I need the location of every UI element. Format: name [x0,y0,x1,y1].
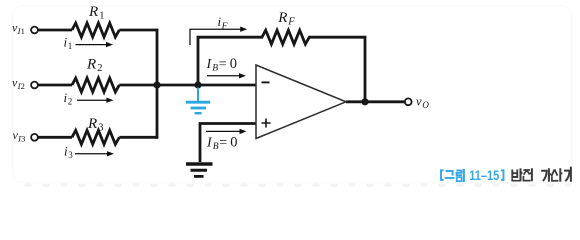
label vI2 [12,76,25,92]
caption figure tag [그림 11-15] [441,169,504,182]
wire R2 to op-amp inverting input [119,84,256,87]
svg-text:0: 0 [230,56,237,72]
resistor R1 [72,23,119,37]
node B : inverting-input junction [194,81,201,88]
wire RF to output node [308,37,365,102]
wire input 2 terminal to R2 [38,84,72,87]
bottom halftone dot row [24,183,572,187]
svg-text:R: R [277,10,287,26]
svg-text:F: F [287,16,295,27]
wire summing bus vertical [156,29,159,139]
current arrow IB=0 lower [206,129,247,134]
label vI1 [12,21,25,37]
hangul 반 [512,170,517,179]
op-amp minus pin label [262,81,270,83]
wire op-amp noninverting input [200,124,256,163]
svg-text:3: 3 [98,122,103,133]
svg-text:11–15: 11–15 [469,168,499,183]
terminal vI3 [31,134,38,141]
resistor R2 [72,78,119,92]
resistor RF [262,30,309,44]
svg-text:2: 2 [68,97,73,107]
hangul 전 [523,170,530,175]
hangul 가 [541,171,547,181]
current arrow i3 [75,151,114,156]
svg-text:2: 2 [21,81,25,91]
ground (virtual, cyan) at node B [186,88,210,114]
wire op-amp output [346,100,404,103]
svg-text:B: B [213,142,219,152]
caption bracket [ [441,170,444,180]
terminal vI2 [31,82,38,89]
svg-text:O: O [422,100,429,110]
wire node B up to feedback line [198,37,263,85]
node A : bus / row-2 junction [153,81,160,88]
op-amp U1 [256,65,346,139]
svg-text:2: 2 [97,63,102,74]
svg-text:B: B [212,63,218,73]
label i2 [64,90,73,107]
wire R3 to bus corner [119,136,158,139]
label vI3 [13,128,26,144]
svg-text:1: 1 [99,11,104,22]
svg-text:3: 3 [68,150,73,160]
wire input 1 terminal to R1 [38,29,72,32]
label IB=0 lower [206,134,238,151]
caption title 반전 가산기 [512,167,571,182]
current arrow i2 [77,98,113,103]
svg-text:=: = [219,57,227,72]
svg-text:3: 3 [21,134,25,144]
hangul 기 [564,171,570,182]
ground (black) at noninverting input [186,164,213,176]
label iF [218,14,228,32]
svg-text:=: = [219,135,227,150]
node output junction [361,98,368,105]
label RF [277,10,295,28]
svg-text:0: 0 [230,134,237,150]
current arrow IB=0 upper [207,73,246,78]
svg-text:v: v [416,95,422,109]
caption bracket ] [501,170,504,180]
svg-text:1: 1 [68,41,73,51]
label R1 [88,4,105,22]
caption hangul 림 [456,170,462,175]
label i3 [64,144,73,161]
label R2 [86,57,103,75]
svg-text:1: 1 [21,26,25,36]
terminal vO [405,98,412,105]
wire R1 to bus corner [119,29,158,32]
resistor R3 [72,130,119,144]
hangul 산 [552,169,558,176]
label vO [416,95,429,110]
caption hangul 그 [445,171,455,178]
label i1 [64,34,73,51]
label R3 [87,116,104,133]
wire input 3 terminal to R3 [38,136,72,139]
terminal vI1 [31,27,38,34]
svg-text:R: R [87,116,97,132]
svg-text:R: R [86,57,96,73]
svg-text:R: R [88,4,98,20]
faint figure box border [13,6,572,183]
current arrow iF (bent) [190,27,247,46]
op-amp plus pin label [262,119,271,128]
label IB=0 upper [206,56,238,73]
current arrow i1 [76,42,114,47]
svg-text:F: F [221,22,228,32]
